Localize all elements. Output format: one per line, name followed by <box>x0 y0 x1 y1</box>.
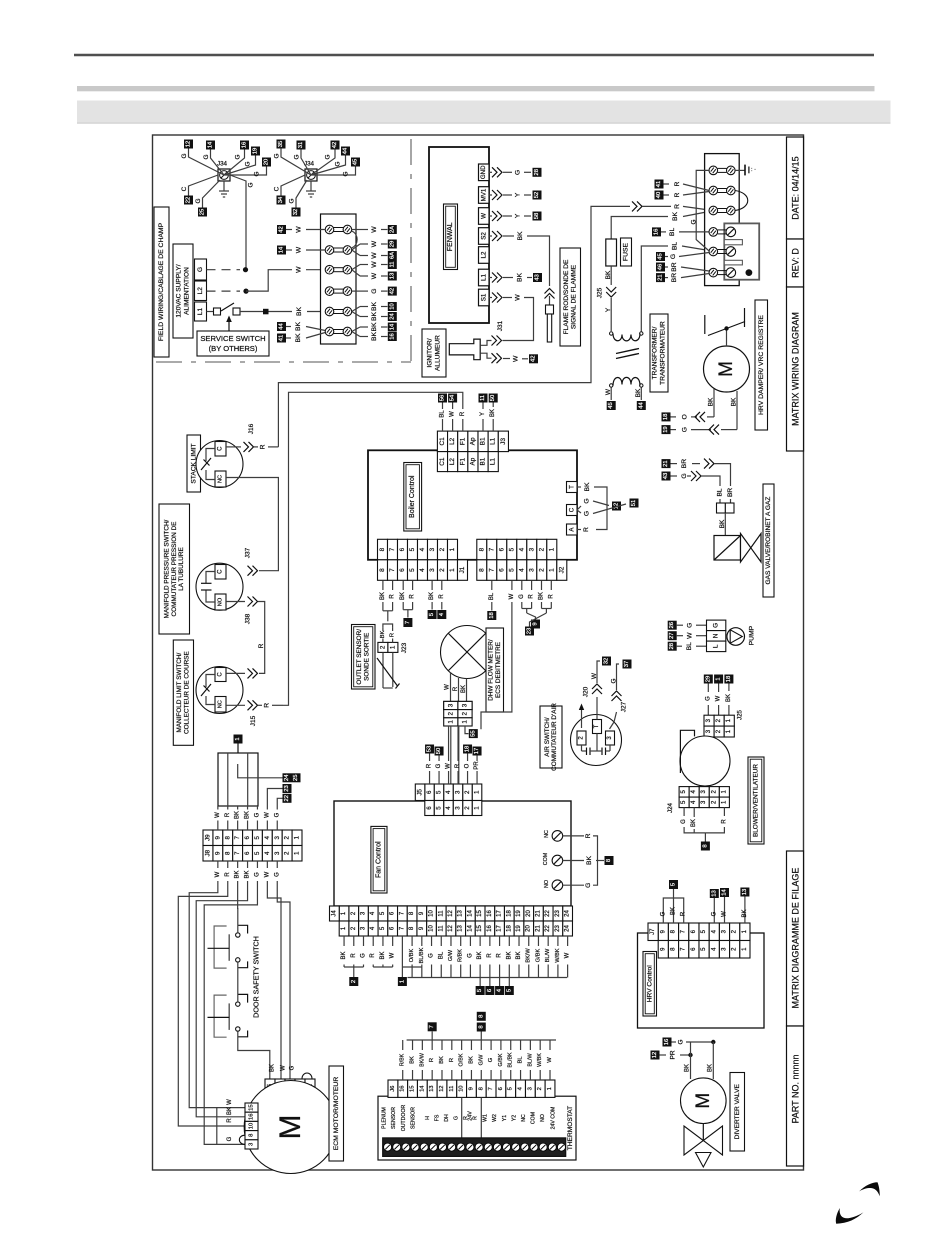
FENWAL terminal L2 <box>479 247 490 264</box>
svg-text:9: 9 <box>468 1087 474 1090</box>
fan relay COM <box>543 852 614 866</box>
wire 26-G pump <box>668 621 707 630</box>
svg-text:14: 14 <box>279 246 285 253</box>
svg-text:3: 3 <box>528 547 535 551</box>
svg-text:BK: BK <box>719 519 726 528</box>
svg-text:Y: Y <box>515 213 522 218</box>
svg-text:W: W <box>215 812 221 818</box>
svg-text:13: 13 <box>429 1085 435 1091</box>
Boiler Control label <box>404 463 422 532</box>
svg-text:FUSE: FUSE <box>623 242 630 261</box>
svg-text:3: 3 <box>274 851 281 855</box>
svg-text:BL: BL <box>669 228 676 237</box>
svg-text:G: G <box>713 623 720 628</box>
svg-text:18: 18 <box>465 746 471 752</box>
svg-text:THERMOSTAT: THERMOSTAT <box>567 1106 574 1150</box>
svg-text:1: 1 <box>389 645 396 649</box>
svg-text:23: 23 <box>527 628 533 634</box>
svg-text:25: 25 <box>200 209 206 215</box>
svg-text:18: 18 <box>506 910 512 917</box>
svg-text:O: O <box>465 763 471 768</box>
top horizontal rule <box>74 54 874 57</box>
wire nuts row 4 <box>325 287 352 296</box>
svg-text:3: 3 <box>447 703 454 707</box>
thermostat label text <box>567 1106 574 1150</box>
svg-text:21: 21 <box>535 925 541 932</box>
svg-text:29: 29 <box>705 676 711 682</box>
svg-text:BL: BL <box>672 242 679 251</box>
J1 wires 6-5 BK R to 7 <box>400 580 415 627</box>
fuse <box>606 239 617 266</box>
svg-text:J2: J2 <box>558 566 565 573</box>
J7 connector outer row <box>648 923 750 941</box>
svg-text:J8: J8 <box>204 849 211 856</box>
svg-text:1: 1 <box>474 790 481 794</box>
svg-text:BK: BK <box>468 1056 474 1064</box>
J34-2 pigtail 31 <box>294 141 312 176</box>
ECM side connector <box>245 1103 258 1149</box>
svg-text:L2: L2 <box>449 437 456 445</box>
svg-text:BR: BR <box>671 273 678 283</box>
svg-text:43: 43 <box>663 473 669 479</box>
svg-text:12: 12 <box>186 141 192 147</box>
svg-text:BK: BK <box>672 212 679 222</box>
J6 boxes 8 8 <box>477 1012 486 1040</box>
svg-text:PUMP: PUMP <box>749 625 756 645</box>
thermostat labels <box>382 1104 557 1131</box>
svg-text:G: G <box>254 171 261 176</box>
svg-text:8: 8 <box>379 547 386 551</box>
svg-text:G: G <box>254 812 260 817</box>
svg-text:NC: NC <box>521 1114 527 1122</box>
fan relay NO <box>544 861 598 891</box>
svg-text:W: W <box>371 226 378 233</box>
svg-text:22: 22 <box>186 197 192 203</box>
svg-text:BK: BK <box>295 322 302 332</box>
svg-text:1: 1 <box>547 1087 553 1090</box>
svg-text:FENWAL: FENWAL <box>447 222 454 251</box>
wire 42-W row1 <box>277 225 325 234</box>
svg-text:(BY OTHERS): (BY OTHERS) <box>209 344 258 353</box>
svg-text:L1: L1 <box>480 274 487 281</box>
svg-text:BK: BK <box>400 592 406 600</box>
svg-text:R: R <box>674 181 681 186</box>
svg-text:T: T <box>568 485 575 489</box>
transformer BK lead <box>635 388 646 411</box>
svg-text:BL: BL <box>489 592 495 600</box>
wire 21-BR to gas valve <box>662 459 731 486</box>
svg-text:BL/W: BL/W <box>527 1053 533 1067</box>
ECM side wire labels <box>227 1099 233 1142</box>
wire S2-BK to flame rod <box>489 231 550 286</box>
svg-text:W: W <box>565 952 571 958</box>
transformer secondary <box>610 377 644 387</box>
svg-text:32: 32 <box>604 658 610 664</box>
svg-text:9: 9 <box>214 835 221 839</box>
FENWAL box <box>429 147 489 323</box>
J9 wires above <box>215 806 261 830</box>
DHW connector J22 <box>444 701 472 726</box>
svg-text:R: R <box>460 411 466 416</box>
svg-text:BK: BK <box>635 388 642 397</box>
svg-text:Fan Control: Fan Control <box>375 841 382 878</box>
title cell MATRIX DIAGRAMME DE FILAGE <box>787 851 804 1026</box>
svg-text:O/BK: O/BK <box>459 1053 465 1066</box>
J4 connector row1 <box>330 906 573 921</box>
svg-text:DH: DH <box>444 1114 450 1122</box>
svg-text:8: 8 <box>224 851 231 855</box>
svg-text:J24: J24 <box>667 802 674 813</box>
svg-text:55: 55 <box>470 730 476 736</box>
svg-text:NC: NC <box>218 700 224 708</box>
transformer BL wire to relay <box>641 242 709 332</box>
svg-text:COLLECTEUR DE COURSE: COLLECTEUR DE COURSE <box>184 651 191 734</box>
svg-text:6A: 6A <box>389 252 395 259</box>
cable conduit <box>218 753 258 806</box>
svg-text:BK: BK <box>691 819 697 827</box>
svg-text:L: L <box>713 644 720 648</box>
svg-text:12: 12 <box>448 910 454 917</box>
svg-text:6: 6 <box>426 790 433 794</box>
wire J3 L1 BK-5a <box>489 394 498 432</box>
stack NC chain to J37 <box>226 478 278 571</box>
svg-text:BK: BK <box>584 482 591 492</box>
svg-text:R: R <box>225 812 231 817</box>
svg-text:G: G <box>274 872 280 877</box>
limit C chevron <box>226 668 258 678</box>
J25 pigtail boxes <box>704 675 734 684</box>
svg-text:45: 45 <box>608 402 614 408</box>
svg-text:G: G <box>343 171 350 176</box>
svg-text:3: 3 <box>249 1143 255 1146</box>
svg-text:BL: BL <box>518 1056 524 1064</box>
svg-text:C1: C1 <box>439 437 446 446</box>
diverter motor <box>681 1078 727 1124</box>
wire J3 F1 R (stack limit chain) <box>283 392 466 705</box>
svg-text:W: W <box>446 763 452 769</box>
svg-text:R: R <box>585 833 592 838</box>
svg-text:BK: BK <box>726 694 732 702</box>
J5 wire R <box>455 726 461 784</box>
svg-text:J20: J20 <box>583 686 590 697</box>
limit C terminal <box>215 668 226 682</box>
svg-text:41: 41 <box>656 181 662 187</box>
svg-text:4: 4 <box>419 568 426 572</box>
service switch callout arrow <box>226 316 232 332</box>
svg-text:R: R <box>439 594 445 599</box>
J5 connector outer row <box>415 784 482 801</box>
J5 connector inner row <box>425 801 482 816</box>
svg-text:6: 6 <box>399 568 406 572</box>
J4 box 2 <box>349 967 358 986</box>
svg-text:20: 20 <box>264 159 270 165</box>
120VAC supply label <box>173 244 193 338</box>
svg-text:24: 24 <box>389 313 395 320</box>
svg-text:BK: BK <box>380 631 386 639</box>
svg-text:BK: BK <box>461 685 467 693</box>
svg-text:BK: BK <box>539 592 545 600</box>
svg-text:R: R <box>487 953 493 958</box>
svg-text:9: 9 <box>533 622 539 625</box>
svg-text:5: 5 <box>429 613 435 616</box>
svg-text:2: 2 <box>538 568 545 572</box>
relay wire-nut row 2 <box>709 186 735 195</box>
svg-text:R: R <box>351 953 357 958</box>
stack limit switch <box>196 441 243 488</box>
svg-text:G: G <box>585 883 592 888</box>
svg-text:NC: NC <box>544 830 550 838</box>
svg-text:R: R <box>227 1118 233 1123</box>
svg-text:BK: BK <box>235 811 241 819</box>
svg-text:2: 2 <box>284 835 291 839</box>
wire row4 G-42 <box>352 287 397 296</box>
transformer W lead <box>605 388 616 411</box>
ECM jumper 8-3 <box>239 1135 245 1144</box>
svg-text:18: 18 <box>663 414 669 420</box>
svg-text:BK: BK <box>490 409 496 417</box>
svg-text:6: 6 <box>244 851 251 855</box>
J4 bus wire <box>408 967 568 978</box>
ignitor wire W-42 <box>492 353 539 363</box>
gray bar 1 <box>77 86 875 91</box>
svg-text:BK: BK <box>245 811 251 819</box>
svg-text:R: R <box>390 594 396 599</box>
relay wire-nut row 1 <box>709 166 735 175</box>
flame rod electrode <box>547 314 551 342</box>
svg-text:16: 16 <box>664 1039 670 1045</box>
svg-text:G: G <box>690 219 697 224</box>
svg-text:G/BK: G/BK <box>535 949 541 963</box>
J4 bracket cols1-3 <box>344 966 363 968</box>
svg-text:M: M <box>693 1093 714 1109</box>
fuse wire bottom <box>605 266 612 285</box>
svg-text:L1: L1 <box>490 458 497 466</box>
svg-text:6: 6 <box>426 806 433 810</box>
svg-text:20: 20 <box>526 910 532 917</box>
svg-text:L1: L1 <box>490 437 497 445</box>
wire 41-BK row6 <box>277 333 325 343</box>
svg-text:G: G <box>289 1065 295 1070</box>
svg-text:56: 56 <box>440 395 446 401</box>
svg-text:46: 46 <box>658 264 664 270</box>
svg-text:BK: BK <box>586 856 593 866</box>
wires row6 BK-14 BK-16 <box>352 322 397 341</box>
blower label <box>748 757 764 844</box>
svg-text:5: 5 <box>436 806 443 810</box>
svg-text:G: G <box>361 953 367 958</box>
relay overlay dot <box>746 269 753 276</box>
svg-text:HRV Control: HRV Control <box>646 965 653 1002</box>
wire 16-G diverter <box>663 1038 716 1047</box>
air switch terminal 3 <box>606 731 615 745</box>
svg-text:G: G <box>335 161 342 166</box>
svg-text:BK: BK <box>296 307 303 317</box>
svg-text:7: 7 <box>488 1087 494 1090</box>
svg-text:W: W <box>605 388 612 395</box>
svg-text:W: W <box>687 632 694 639</box>
diverter valve label <box>730 1073 745 1152</box>
svg-text:2: 2 <box>439 547 446 551</box>
svg-text:B1: B1 <box>480 437 487 445</box>
svg-text:21: 21 <box>663 460 669 466</box>
svg-text:Y: Y <box>515 192 522 197</box>
svg-text:SIGNAL DE FLAMME: SIGNAL DE FLAMME <box>571 264 578 329</box>
svg-text:G: G <box>519 594 525 599</box>
DHW leads <box>445 672 467 701</box>
svg-text:12: 12 <box>448 925 454 932</box>
svg-text:BK: BK <box>371 322 378 332</box>
outlet sensor label <box>352 625 376 690</box>
svg-text:W: W <box>509 593 515 599</box>
field wiring label <box>154 207 169 357</box>
svg-text:22: 22 <box>545 925 551 932</box>
svg-text:BK: BK <box>371 332 378 342</box>
wire 28-BL pump <box>668 642 707 651</box>
outlet sensor thermistor <box>377 652 400 688</box>
svg-text:8: 8 <box>224 835 231 839</box>
svg-text:1: 1 <box>294 835 301 839</box>
svg-text:TRANSFORMER/: TRANSFORMER/ <box>652 326 659 379</box>
pressure NO terminal <box>215 594 226 610</box>
svg-text:W: W <box>371 261 378 268</box>
svg-text:54: 54 <box>450 394 456 401</box>
svg-text:R: R <box>449 1058 455 1062</box>
svg-text:J34: J34 <box>217 161 228 168</box>
connector J34 (cluster 1) <box>217 161 230 182</box>
wire 19-G to damper <box>662 425 738 435</box>
svg-text:BK: BK <box>708 1064 714 1072</box>
svg-text:15: 15 <box>477 925 483 932</box>
flame rod label <box>560 248 581 346</box>
svg-text:W: W <box>371 272 378 279</box>
svg-text:BLOWER/VENTILATEUR: BLOWER/VENTILATEUR <box>753 764 760 837</box>
J15 chevron <box>226 700 283 726</box>
svg-text:5: 5 <box>409 547 416 551</box>
relay overlay notches <box>724 240 742 265</box>
pump symbol <box>727 628 745 646</box>
blower scroll <box>680 730 730 786</box>
svg-text:5: 5 <box>671 883 677 886</box>
svg-text:MATRIX WIRING DIAGRAM: MATRIX WIRING DIAGRAM <box>790 312 800 426</box>
svg-text:42: 42 <box>531 356 537 362</box>
manifold pressure label <box>159 504 190 634</box>
J9 branch G-22 <box>274 794 291 830</box>
svg-text:5: 5 <box>508 547 515 551</box>
relay G loop wire <box>690 170 709 251</box>
J34-1 pigtail 14 <box>203 141 224 176</box>
wire W-Y-58 <box>489 211 542 221</box>
svg-text:BL/BK: BL/BK <box>508 1052 514 1068</box>
J2 terminal T <box>567 482 578 493</box>
svg-text:R: R <box>390 633 396 637</box>
dashed section border horizontal <box>156 361 411 363</box>
svg-text:R: R <box>497 953 503 958</box>
svg-text:20: 20 <box>526 925 532 932</box>
svg-text:1: 1 <box>548 568 555 572</box>
svg-text:13: 13 <box>711 890 717 896</box>
svg-text:BL/W: BL/W <box>545 948 551 962</box>
svg-text:NO: NO <box>544 880 550 888</box>
cable branch BK-24-25 <box>238 764 301 782</box>
svg-text:R: R <box>410 594 416 599</box>
title cell REV <box>787 239 804 287</box>
manifold limit label <box>173 640 193 745</box>
svg-text:1: 1 <box>399 980 405 983</box>
svg-text:10: 10 <box>459 1085 465 1091</box>
fuse label <box>621 238 632 266</box>
svg-text:NO: NO <box>218 597 224 606</box>
svg-text:W: W <box>280 1065 286 1071</box>
ignitor plug <box>449 339 491 360</box>
svg-text:8: 8 <box>379 568 386 572</box>
svg-text:6: 6 <box>498 568 505 572</box>
svg-text:M: M <box>274 1115 307 1140</box>
air switch label <box>540 703 562 771</box>
wire L2 (dashed) to W row <box>207 266 326 294</box>
door chain to motor pin5 <box>238 1031 275 1079</box>
svg-text:G/BK: G/BK <box>498 1053 504 1066</box>
svg-text:31: 31 <box>298 142 304 148</box>
svg-text:GAS VALVE/ROBINET A GAZ: GAS VALVE/ROBINET A GAZ <box>765 497 772 585</box>
svg-text:2A: 2A <box>389 226 395 233</box>
terminal strip box <box>321 214 357 344</box>
svg-text:BK: BK <box>227 1107 233 1115</box>
thermostat terminal strip <box>383 1138 566 1157</box>
svg-text:SENSOR: SENSOR <box>411 1107 417 1129</box>
J6 wires above <box>400 1040 556 1080</box>
svg-text:G: G <box>467 953 473 958</box>
svg-text:2: 2 <box>379 645 386 649</box>
svg-text:J37: J37 <box>245 547 252 558</box>
svg-text:PR: PR <box>474 761 480 770</box>
J4 bracket cols4-6 <box>373 966 392 968</box>
J7 wires G W BK boxes <box>710 888 750 924</box>
service switch label <box>197 331 269 356</box>
svg-text:NC: NC <box>218 475 224 483</box>
wire 44-BK row6 <box>277 322 325 332</box>
svg-text:Ap: Ap <box>469 457 476 465</box>
svg-text:BK: BK <box>685 1064 691 1072</box>
svg-text:18: 18 <box>726 676 732 682</box>
wire J8-3 G to motor pin3 <box>277 888 295 1079</box>
svg-text:BK: BK <box>671 907 677 915</box>
svg-text:G: G <box>248 182 255 187</box>
svg-text:BK: BK <box>380 951 386 959</box>
svg-text:M: M <box>716 361 737 377</box>
svg-text:ECM MOTOR/MOTEUR: ECM MOTOR/MOTEUR <box>333 1077 340 1151</box>
svg-text:35: 35 <box>278 141 284 147</box>
J2 terminal C <box>567 505 578 516</box>
service switch contacts <box>207 303 241 315</box>
svg-text:W: W <box>716 695 722 701</box>
svg-text:BK: BK <box>605 270 612 279</box>
svg-text:19: 19 <box>516 910 522 917</box>
relay wire-nut row 3 <box>709 206 735 215</box>
svg-text:SONDE SORTIE: SONDE SORTIE <box>363 633 370 681</box>
svg-text:J4: J4 <box>331 910 337 917</box>
J38 chevron <box>226 597 258 625</box>
svg-text:: ·: : · <box>751 167 756 173</box>
svg-text:18: 18 <box>489 612 495 618</box>
relay ground <box>735 165 756 176</box>
thermostat outer box <box>378 1096 576 1160</box>
svg-text:C: C <box>568 507 575 512</box>
title cell PART NO <box>787 1026 804 1166</box>
svg-text:C: C <box>181 186 188 191</box>
wire A-R <box>577 527 590 532</box>
svg-text:R: R <box>370 953 376 958</box>
ECM motor jumper <box>302 1073 312 1079</box>
